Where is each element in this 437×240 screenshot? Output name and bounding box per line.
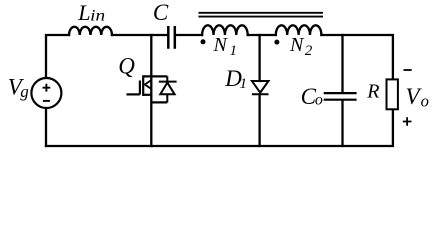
svg-text:g: g [20, 82, 29, 101]
svg-text:1: 1 [230, 43, 238, 59]
svg-text:o: o [315, 91, 323, 108]
svg-text:C: C [153, 0, 169, 25]
svg-text:2: 2 [305, 43, 313, 59]
svg-text:R: R [366, 81, 379, 103]
svg-text:N: N [213, 34, 229, 56]
svg-text:in: in [90, 8, 105, 25]
svg-text:1: 1 [240, 76, 248, 92]
svg-text:L: L [77, 0, 90, 25]
svg-text:N: N [289, 34, 305, 56]
svg-text:o: o [421, 91, 429, 110]
svg-text:Q: Q [118, 53, 135, 78]
